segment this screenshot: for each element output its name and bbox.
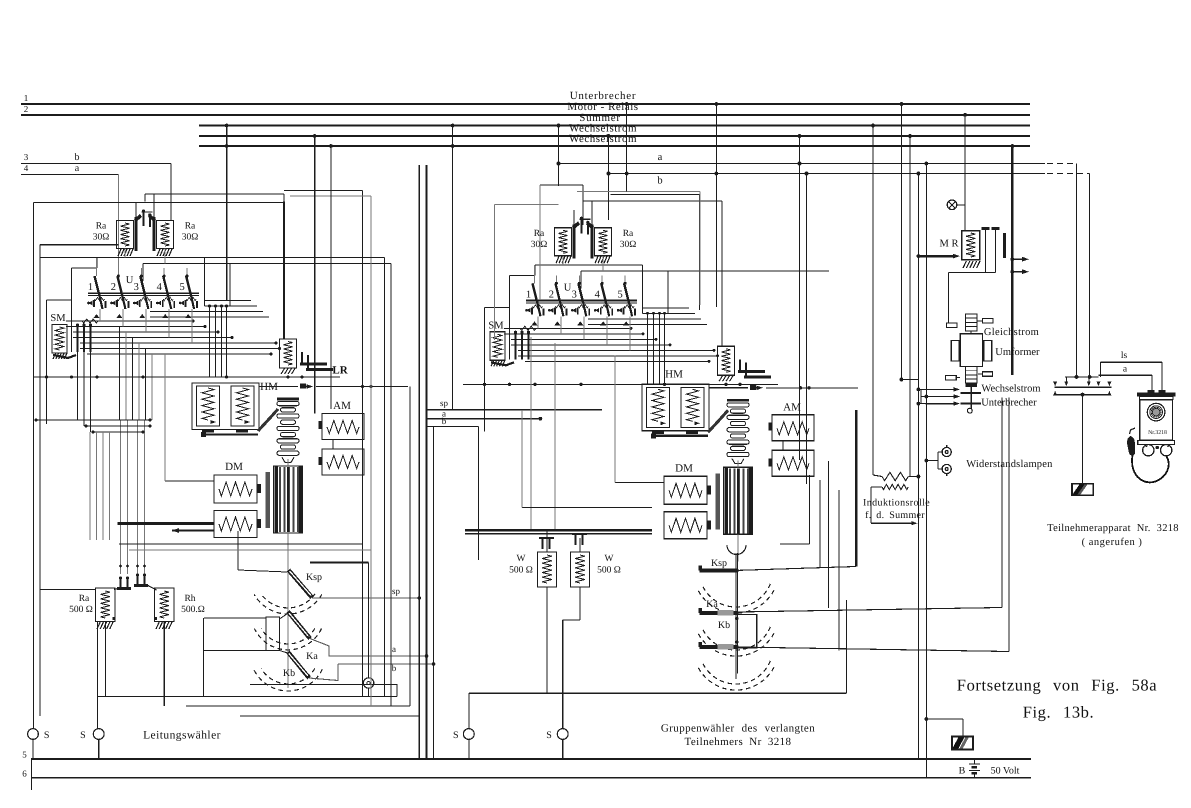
contact lever U5 (Gruppenw) — [624, 283, 629, 303]
armature linkage HM (Gruppenw) — [708, 410, 728, 432]
coil Ra 30ohm left (Gruppenw) — [555, 228, 572, 256]
coil W 500ohm right — [571, 552, 590, 587]
telephone cord — [1132, 456, 1169, 483]
contact lever U2 (Leitungsw) — [117, 276, 122, 296]
Unterbrecher interrupter — [970, 387, 972, 409]
block bottom wires — [250, 684, 397, 686]
svg-text:AM: AM — [333, 400, 351, 412]
contact lever U1 (Leitungsw) — [95, 276, 100, 296]
battery B box — [952, 736, 973, 749]
junction rows (Leitungsw) — [36, 419, 150, 421]
svg-text:U: U — [126, 275, 134, 286]
coil LR (Gruppenw) — [718, 346, 735, 375]
wire vertical from Summer to Leitungswaehler — [226, 126, 228, 301]
wire sp riser — [417, 596, 421, 600]
contact between Ra relays (Leitungsw) — [153, 194, 155, 217]
telephone bell left — [1143, 445, 1154, 456]
svg-text:3: 3 — [572, 289, 577, 300]
wire Ksp to heavy riser — [737, 567, 856, 571]
wire vertical from Motor-Relais bus — [964, 115, 966, 231]
contact arc Ka (Gruppenwaehler) — [702, 627, 771, 650]
svg-text:ls: ls — [1121, 351, 1128, 361]
motor armature (Leitungsw) — [274, 466, 303, 533]
wire Kb pivot feed — [204, 649, 266, 651]
bus line 2 (Motor-Relais) — [21, 114, 1030, 116]
svg-text:S: S — [80, 730, 86, 741]
svg-text:S: S — [44, 730, 50, 741]
svg-text:500 Ω: 500 Ω — [597, 566, 621, 576]
svg-text:5: 5 — [617, 289, 622, 300]
svg-text:Ka: Ka — [306, 651, 318, 662]
coil Rh 500ohm — [155, 588, 175, 622]
wire into DM (Leitungsw) — [165, 480, 214, 482]
svg-text:b: b — [75, 152, 80, 163]
svg-text:2: 2 — [111, 282, 116, 293]
wire bank top (Leitungsw) — [96, 258, 98, 277]
wire Ra500 leads — [40, 588, 96, 590]
shaft wire (Leitungsw) — [287, 459, 289, 466]
svg-text:Induktionsrolle: Induktionsrolle — [863, 498, 930, 509]
svg-text:a: a — [392, 644, 396, 654]
svg-text:AM: AM — [783, 401, 801, 413]
contact lever U4 (Leitungsw) — [163, 276, 168, 296]
wire feeds to HM (Leitungsw) — [209, 321, 211, 377]
phone line ls — [1076, 164, 1078, 377]
wire Ka to bank — [737, 608, 1002, 613]
wire capacitor leads — [985, 230, 987, 273]
svg-text:a: a — [1123, 365, 1128, 375]
wire top-left horizontal — [34, 202, 285, 204]
contact lever U5 (Leitungsw) — [186, 276, 191, 296]
svg-text:4: 4 — [157, 282, 163, 293]
wire bundle upper rows (Gruppenw) — [643, 307, 690, 309]
svg-text:f. d. Summer: f. d. Summer — [865, 510, 925, 521]
wire Ra tops (Leitungsw) — [135, 203, 137, 218]
contact lever U3 (Gruppenw) — [578, 283, 583, 303]
block bottom (Gruppenwaehler) — [469, 692, 847, 694]
wire right vertical to bank — [901, 379, 918, 381]
coil Ra 30ohm right (Leitungsw) — [157, 221, 174, 249]
bus line 3 (Summer) — [199, 125, 1030, 127]
wire bank top (Gruppenw) — [534, 265, 536, 284]
wire vertical from Summer to riser zone — [452, 126, 454, 410]
contact bars below LR (Gruppenw) — [738, 370, 765, 373]
svg-text:Ksp: Ksp — [306, 572, 322, 583]
wire Ksp pivot feed — [237, 531, 239, 570]
svg-text:Ka: Ka — [706, 599, 718, 610]
contact bars below LR (Leitungsw) — [300, 363, 327, 366]
wire bundle rows (Leitungsw) — [66, 320, 193, 322]
svg-text:a: a — [658, 152, 663, 163]
svg-text:Rh: Rh — [184, 594, 195, 604]
svg-text:4: 4 — [24, 163, 29, 173]
wire vertical bus to Gruppenwaehler frame — [626, 104, 628, 192]
contact arc Ka — [261, 629, 315, 644]
svg-text:HM: HM — [665, 368, 683, 380]
svg-text:500 Ω: 500 Ω — [509, 566, 533, 576]
svg-text:Kb: Kb — [718, 620, 730, 631]
wire a (wiper) — [310, 639, 427, 657]
svg-text:30Ω: 30Ω — [620, 240, 637, 250]
loop Ka-Kb — [737, 615, 757, 649]
telephone set of called subscriber — [1137, 393, 1176, 397]
svg-text:sp: sp — [440, 398, 449, 408]
contact lever U1 (Gruppenw) — [533, 283, 538, 303]
wire box over U relay (Gruppenw) — [535, 264, 643, 266]
contact arc Kb — [261, 669, 315, 684]
contact group beside SM (Gruppenw) — [514, 332, 516, 359]
contact above shaft (Leitungsw) — [259, 386, 298, 388]
wire bundle rows (Gruppenw) — [504, 327, 631, 329]
wiper Ka (Leitungswaehler) — [288, 612, 310, 639]
wiper Kb (Leitungswaehler) — [288, 652, 309, 678]
svg-text:S: S — [546, 730, 552, 741]
svg-text:50 Volt: 50 Volt — [991, 766, 1020, 777]
svg-text:sp: sp — [392, 586, 401, 596]
contact bank of called subscriber — [1054, 386, 1111, 388]
wire dark feed row (Gruppenwaehler) — [465, 529, 652, 532]
svg-text:Ra: Ra — [534, 229, 545, 239]
svg-text:Umformer: Umformer — [995, 347, 1040, 358]
wire a drop — [118, 175, 120, 282]
wire lamps — [937, 452, 939, 469]
battery (subscriber) — [1072, 484, 1093, 496]
wire W leads — [546, 531, 548, 552]
contact pair above W coils — [539, 537, 554, 539]
wire upper frame (Gruppenw) — [583, 200, 722, 202]
svg-text:M R: M R — [940, 239, 959, 250]
lamp Widerstandslampen 2 — [942, 464, 951, 473]
wire row under coils (Gruppenw) — [463, 383, 778, 385]
svg-text:1: 1 — [88, 282, 93, 293]
wire phone feeds — [1151, 375, 1153, 393]
svg-text:Fig. 13b.: Fig. 13b. — [1023, 703, 1095, 722]
wire b drop — [170, 164, 172, 221]
svg-text:U: U — [564, 282, 572, 293]
shaft wire (Gruppenw) — [737, 460, 739, 467]
wire Gruppenwaehler left border feed — [495, 204, 559, 206]
svg-text:30Ω: 30Ω — [531, 240, 548, 250]
contact between Ra relays (Gruppenw) — [591, 201, 593, 224]
wire to battery (subscriber) — [1082, 395, 1084, 484]
Induktionsrolle coil — [882, 472, 908, 480]
motor switch contact (circle) — [947, 200, 957, 210]
wire feeds to HM (Gruppenw) — [647, 328, 649, 384]
wire right verticals (Leitungswaehler) — [284, 189, 363, 191]
terminal S1 (Leitungswaehler) — [28, 729, 39, 740]
coil Ra 500ohm — [96, 588, 116, 622]
coil Ra 30ohm right (Gruppenw) — [595, 228, 612, 256]
svg-text:Ra: Ra — [185, 222, 196, 232]
svg-text:Teilnehmerapparat Nr. 3218: Teilnehmerapparat Nr. 3218 — [1047, 523, 1179, 534]
divider line left — [418, 165, 420, 758]
contact arc Ksp (Gruppenwaehler) — [702, 584, 771, 607]
wire vertical from Wechselstrom 1 — [314, 136, 316, 414]
wire into DM (Gruppenw) — [615, 481, 664, 483]
wire heavy return to lamp riser — [310, 561, 369, 563]
svg-text:4: 4 — [595, 289, 601, 300]
contact lever U4 (Gruppenw) — [601, 283, 606, 303]
wire b (wiper) — [309, 664, 338, 681]
wire vertical a feed (Gruppenwaehler) — [558, 126, 560, 164]
wire vertical Summer to Induktionsrolle — [872, 126, 874, 476]
svg-text:Unterbrecher: Unterbrecher — [981, 398, 1037, 409]
contact group beside SM (Leitungsw) — [76, 325, 78, 352]
telephone shelf — [1138, 440, 1175, 444]
wire row under coils (Leitungsw) — [33, 376, 340, 378]
svg-text:2: 2 — [24, 104, 29, 114]
wire vertical thick from Wechselstrom bus — [1011, 146, 1013, 375]
contact prongs — [926, 388, 956, 390]
wire vertical from Wechselstrom 2 — [330, 146, 332, 409]
svg-text:W: W — [517, 554, 526, 564]
svg-text:Nr.3218: Nr.3218 — [1148, 430, 1167, 436]
svg-text:Ra: Ra — [79, 594, 90, 604]
svg-text:Ra: Ra — [623, 229, 634, 239]
svg-text:1: 1 — [526, 289, 531, 300]
svg-text:Ra: Ra — [96, 222, 107, 232]
svg-text:Wechselstrom: Wechselstrom — [981, 384, 1040, 395]
contact above shaft (Gruppenw) — [709, 387, 748, 389]
contact bank rail 2 — [1055, 394, 1109, 396]
wire vertical right of Gruppenwaehler 1 — [715, 104, 717, 307]
wire sp — [312, 597, 419, 599]
svg-text:Gleichstrom: Gleichstrom — [984, 327, 1039, 338]
wire bundle upper rows (Leitungsw) — [205, 300, 252, 302]
spring below Ra500 — [97, 622, 100, 629]
bus line 4 (Wechselstrom) — [199, 135, 1030, 137]
svg-text:5: 5 — [22, 750, 27, 760]
wire vertical right 1 — [900, 104, 902, 380]
capacitor plates — [982, 227, 990, 230]
svg-text:Fortsetzung von Fig. 58a: Fortsetzung von Fig. 58a — [957, 676, 1157, 695]
svg-text:a: a — [75, 163, 80, 174]
wire vertical pair center-left — [283, 202, 285, 340]
wire vertical right 3 — [917, 174, 919, 760]
contact arc Ksp — [261, 594, 315, 608]
Umformer (motor-generator) — [965, 314, 976, 331]
wire Rh500 leads — [163, 622, 165, 707]
svg-text:b: b — [657, 176, 662, 187]
wire box over U relay (Leitungsw) — [97, 257, 205, 259]
svg-text:6: 6 — [22, 769, 27, 779]
telephone receiver on hook — [1130, 428, 1136, 434]
telephone bell right — [1161, 445, 1172, 456]
svg-text:3: 3 — [24, 152, 29, 162]
motor armature (Gruppenw) — [724, 467, 753, 534]
contact arc Kb (Gruppenwaehler) — [702, 661, 771, 684]
contact lever U3 (Leitungsw) — [140, 276, 145, 296]
lower contact pair (Leitungsw) — [117, 587, 131, 590]
svg-text:Ksp: Ksp — [711, 558, 727, 569]
selector shaft (Leitungsw) — [277, 398, 299, 401]
svg-text:Leitungswähler: Leitungswähler — [143, 730, 221, 742]
block border left — [33, 203, 35, 729]
svg-text:30Ω: 30Ω — [93, 233, 110, 243]
wire droppers (Gruppenwaehler) — [530, 337, 532, 530]
svg-text:5: 5 — [179, 282, 184, 293]
wire upper frame (Leitungsw) — [145, 193, 284, 195]
lamp Widerstandslampen 1 — [942, 447, 951, 456]
svg-text:SM: SM — [488, 320, 504, 331]
svg-text:Teilnehmers Nr 3218: Teilnehmers Nr 3218 — [685, 736, 792, 748]
wire Ra tops (Gruppenw) — [573, 210, 575, 225]
svg-text:500 Ω: 500 Ω — [69, 605, 93, 615]
svg-text:( angerufen ): ( angerufen ) — [1082, 537, 1143, 548]
coil W 500ohm left — [538, 552, 557, 587]
svg-text:500.Ω: 500.Ω — [181, 605, 205, 615]
wire droppers from bank (Leitungsw) — [99, 309, 101, 321]
divider line right — [426, 165, 428, 758]
contact arrows to bus — [1012, 258, 1024, 260]
armature linkage HM (Leitungsw) — [258, 409, 278, 431]
svg-text:SM: SM — [50, 313, 66, 324]
wire droppers from bank (Gruppenw) — [537, 316, 539, 328]
Umformer pads bottom — [946, 375, 957, 380]
svg-text:b: b — [442, 416, 447, 426]
coil Ra 30ohm left (Leitungsw) — [117, 221, 134, 249]
svg-text:LR: LR — [332, 365, 348, 377]
svg-text:b: b — [392, 663, 397, 673]
bus line 5 (Wechselstrom) — [199, 145, 1030, 147]
wire vertical b feed (Gruppenwaehler) — [608, 136, 610, 174]
svg-text:30Ω: 30Ω — [182, 233, 199, 243]
bus line 1 (Unterbrecher) — [21, 103, 1030, 105]
svg-text:DM: DM — [225, 461, 243, 473]
lamp at block output — [368, 664, 370, 678]
wire Kb to bank — [737, 647, 1009, 652]
svg-text:1: 1 — [24, 93, 29, 103]
wire vertical right 4 — [925, 164, 927, 778]
selector shaft (Gruppenw) — [727, 399, 749, 402]
telephone dial — [1147, 403, 1165, 421]
wire to battery B — [926, 718, 963, 720]
shaft (Gruppenwaehler wipers) — [735, 553, 737, 679]
svg-text:3: 3 — [134, 282, 139, 293]
svg-text:DM: DM — [675, 462, 693, 474]
wire middle-top frame — [540, 184, 583, 186]
wire vertical right of Gruppenwaehler 2 — [799, 136, 801, 460]
wiper Ksp (Leitungswaehler) — [287, 560, 289, 688]
wire riser x433 — [433, 426, 435, 759]
contact lever U2 (Gruppenw) — [555, 283, 560, 303]
phone line a — [1099, 374, 1152, 376]
wire Ka pivot feed — [266, 617, 280, 651]
wire droppers to lower contacts (Leitungsw) — [119, 327, 121, 421]
svg-text:B: B — [959, 766, 966, 777]
wire vertical right 2 — [909, 136, 911, 476]
svg-text:S: S — [453, 730, 459, 741]
svg-text:W: W — [605, 554, 614, 564]
svg-text:Widerstandslampen: Widerstandslampen — [966, 459, 1053, 470]
coil LR (Leitungsw) — [280, 339, 297, 368]
svg-text:Kb: Kb — [283, 668, 295, 679]
svg-text:Gruppenwähler des verlangten: Gruppenwähler des verlangten — [661, 723, 815, 735]
wire vertical right of Gruppenwaehler 3 — [806, 174, 808, 485]
wire armature M.R — [918, 255, 955, 257]
svg-text:2: 2 — [549, 289, 554, 300]
